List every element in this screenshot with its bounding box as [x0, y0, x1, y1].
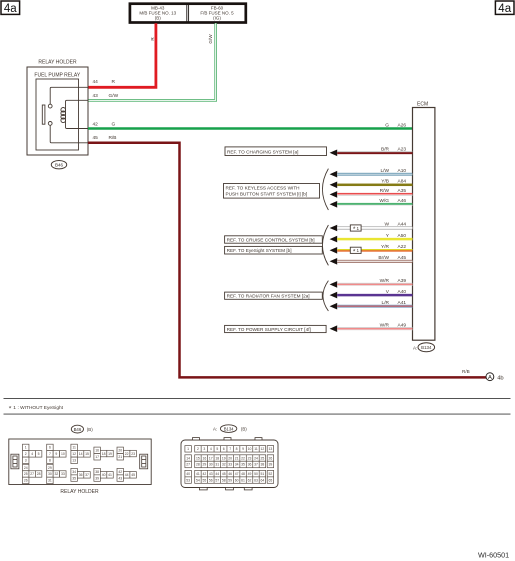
svg-text:27: 27	[30, 472, 34, 476]
svg-text:A23: A23	[398, 147, 407, 153]
label W/R A39	[380, 278, 407, 284]
svg-text:21: 21	[235, 456, 239, 460]
svg-text:6: 6	[49, 446, 51, 450]
svg-text:REF. TO EyeSight SYSTEM [b]: REF. TO EyeSight SYSTEM [b]	[227, 248, 292, 253]
svg-text:64: 64	[261, 478, 265, 482]
svg-text:21: 21	[118, 455, 122, 459]
svg-text:B46: B46	[74, 427, 82, 432]
B46 pins 11-15	[71, 444, 90, 463]
svg-text:56: 56	[209, 478, 213, 482]
ref box: keyless access with push button start system	[224, 184, 320, 199]
svg-text:5: 5	[38, 452, 40, 456]
svg-text:(B): (B)	[87, 427, 93, 432]
svg-text:45: 45	[222, 472, 226, 476]
label RELAY HOLDER (pinout)	[60, 489, 99, 495]
B46 pins 29-33	[47, 464, 66, 483]
svg-text:1: 1	[13, 405, 16, 411]
svg-text:38: 38	[95, 470, 99, 474]
connector B134 label	[213, 425, 247, 433]
svg-text:39: 39	[95, 476, 99, 480]
svg-text:4b: 4b	[497, 375, 503, 381]
svg-text:*: *	[9, 405, 12, 412]
wire R from fuse MB-43 to relay pin 44	[88, 23, 156, 87]
connector B134 ECM pinout	[181, 438, 278, 490]
svg-text:43: 43	[118, 476, 122, 480]
svg-text:Br/W: Br/W	[378, 255, 389, 261]
svg-text:45: 45	[131, 473, 135, 477]
label G/W (vertical wire color)	[208, 34, 213, 44]
svg-text:45: 45	[93, 135, 99, 141]
svg-text:A:: A:	[413, 345, 417, 350]
svg-text:24: 24	[254, 456, 258, 460]
fuse MB-43 M/B FUSE NO. 13 (B)	[130, 4, 246, 23]
connector B46 reference oval	[51, 161, 66, 169]
svg-text:53: 53	[186, 478, 190, 482]
svg-text:59: 59	[228, 478, 232, 482]
label V A40	[386, 289, 407, 295]
wire relay coil to pin 42	[66, 122, 89, 129]
svg-text:A40: A40	[398, 289, 407, 295]
svg-text:10: 10	[248, 447, 252, 451]
svg-text:1: 1	[25, 446, 27, 450]
wire relay contact to pin 45	[50, 125, 88, 142]
svg-text:43: 43	[209, 472, 213, 476]
label L/W A10	[380, 168, 406, 174]
svg-text:A45: A45	[398, 255, 407, 261]
svg-text:W/R: W/R	[380, 278, 390, 284]
svg-text:46: 46	[228, 472, 232, 476]
svg-text:A41: A41	[398, 300, 407, 306]
svg-text:41: 41	[108, 473, 112, 477]
svg-text:32: 32	[54, 472, 58, 476]
wire Y/B to ECM pin A84	[330, 182, 413, 189]
svg-text:2: 2	[25, 452, 27, 456]
svg-text:27: 27	[186, 463, 190, 467]
svg-text:39: 39	[269, 463, 273, 467]
svg-text:ECM: ECM	[417, 101, 428, 107]
B46 pins 16-19	[94, 447, 113, 460]
svg-text:A50: A50	[398, 233, 407, 239]
svg-text:13: 13	[72, 459, 76, 463]
svg-text:26: 26	[24, 479, 28, 483]
svg-text:54: 54	[196, 478, 200, 482]
svg-text:R: R	[150, 37, 155, 41]
svg-text:12: 12	[72, 452, 76, 456]
svg-text:35: 35	[72, 476, 76, 480]
svg-text:26: 26	[269, 456, 273, 460]
svg-text:61: 61	[241, 478, 245, 482]
svg-text:25: 25	[24, 472, 28, 476]
svg-text:4a: 4a	[4, 3, 17, 15]
group arc cruise/eyesight	[322, 225, 328, 265]
svg-text:A46: A46	[398, 198, 407, 204]
wire Y to ECM pin A50	[330, 236, 413, 243]
B134 left pins 1,14,27,40,53	[185, 446, 191, 484]
footnote *1 WITHOUT EyeSight	[9, 405, 64, 413]
wire R/W to ECM pin A35	[330, 191, 413, 198]
connector B46 label	[71, 425, 93, 433]
svg-text:G/W: G/W	[208, 34, 213, 44]
svg-text:38: 38	[261, 463, 265, 467]
svg-text:28: 28	[37, 472, 41, 476]
footnote box *1	[350, 247, 361, 255]
svg-text:1: 1	[357, 248, 360, 253]
svg-text:G/W: G/W	[109, 93, 119, 99]
svg-text:37: 37	[85, 473, 89, 477]
label B/R A23	[381, 147, 406, 153]
svg-text:A26: A26	[398, 122, 407, 128]
svg-text:RELAY HOLDER: RELAY HOLDER	[60, 489, 99, 495]
svg-text:20: 20	[228, 456, 232, 460]
group arc radiator fan	[323, 281, 328, 311]
svg-text:8: 8	[49, 459, 51, 463]
svg-text:62: 62	[248, 478, 252, 482]
svg-text:A49: A49	[398, 322, 407, 328]
svg-text:R/B: R/B	[109, 135, 117, 141]
svg-text:8: 8	[236, 447, 238, 451]
document number WI-60501	[478, 551, 509, 560]
svg-text:17: 17	[95, 455, 99, 459]
svg-text:REF. TO RADIATOR FAN SYSTEM [2: REF. TO RADIATOR FAN SYSTEM [2a]	[227, 294, 310, 299]
svg-text:32: 32	[222, 463, 226, 467]
wire Y/R to ECM pin A22	[330, 247, 413, 254]
svg-text:4: 4	[210, 447, 212, 451]
ref box: EyeSight system	[225, 246, 323, 254]
B46 pins 38-41	[94, 468, 113, 481]
svg-text:40: 40	[102, 473, 106, 477]
svg-text:24: 24	[24, 466, 28, 470]
svg-text:RELAY HOLDER: RELAY HOLDER	[38, 60, 77, 66]
svg-text:22: 22	[241, 456, 245, 460]
separator rules	[4, 398, 511, 414]
svg-text:50: 50	[254, 472, 258, 476]
ECM U1	[413, 101, 435, 340]
svg-text:23: 23	[131, 452, 135, 456]
label Y A50	[386, 233, 407, 239]
svg-text:22: 22	[125, 452, 129, 456]
label R/W A35	[380, 188, 407, 194]
svg-text:29: 29	[202, 463, 206, 467]
label W/R A49	[380, 322, 407, 328]
svg-text:A44: A44	[398, 222, 407, 228]
label R/B (bottom run)	[462, 369, 470, 374]
svg-text:20: 20	[118, 449, 122, 453]
svg-text:B46: B46	[55, 163, 64, 168]
B46 pins 24-28	[23, 464, 42, 483]
label G A26	[385, 122, 406, 128]
svg-text:B/R: B/R	[381, 147, 390, 153]
svg-text:51: 51	[261, 472, 265, 476]
svg-text:44: 44	[215, 472, 219, 476]
svg-text:W: W	[384, 222, 389, 228]
svg-text:30: 30	[48, 472, 52, 476]
svg-text:42: 42	[118, 470, 122, 474]
svg-text:3: 3	[25, 459, 27, 463]
label Br/W A45	[378, 255, 406, 261]
svg-text:(IG): (IG)	[213, 16, 221, 21]
B46 pins 20-23	[117, 447, 136, 460]
B46 pins 42-45	[117, 468, 136, 481]
svg-text:42: 42	[202, 472, 206, 476]
svg-text:34: 34	[72, 470, 76, 474]
svg-text:B134: B134	[421, 345, 432, 350]
svg-text:1: 1	[357, 226, 360, 231]
label Y/R A22	[381, 244, 406, 250]
svg-text:FUEL PUMP RELAY: FUEL PUMP RELAY	[34, 73, 80, 79]
B46 pins 1-5	[23, 444, 42, 463]
svg-text:18: 18	[102, 452, 106, 456]
svg-text:48: 48	[241, 472, 245, 476]
pin 42 label G	[93, 122, 116, 128]
svg-text:16: 16	[95, 449, 99, 453]
wire W/R to ECM pin A39	[330, 281, 413, 288]
node A circle to 4b	[486, 373, 504, 381]
svg-text:9: 9	[242, 447, 244, 451]
svg-text:36: 36	[248, 463, 252, 467]
wire G from relay pin 42 to ECM A26	[88, 127, 413, 130]
svg-text:R/B: R/B	[462, 369, 470, 374]
svg-text:17: 17	[209, 456, 213, 460]
footnote box *1	[350, 225, 361, 233]
svg-text:10: 10	[61, 452, 65, 456]
svg-text:52: 52	[269, 472, 273, 476]
label Y/B A84	[381, 179, 406, 185]
svg-text:9: 9	[55, 452, 57, 456]
svg-text:11: 11	[254, 447, 258, 451]
ref box: radiator fan system	[225, 292, 323, 299]
svg-text:58: 58	[222, 478, 226, 482]
svg-text:*: *	[353, 226, 356, 233]
label L/R A41	[382, 300, 407, 306]
svg-text:L/W: L/W	[380, 168, 389, 174]
wire G/W from fuse FB-60 to relay pin 43	[88, 23, 216, 100]
svg-text:12: 12	[261, 447, 265, 451]
svg-text:REF. TO KEYLESS ACCESS WITH: REF. TO KEYLESS ACCESS WITH	[226, 186, 300, 191]
B134 middle pin grid	[195, 446, 266, 484]
svg-text:15: 15	[196, 456, 200, 460]
wire L/R to ECM pin A41	[330, 303, 413, 310]
svg-text:60: 60	[235, 478, 239, 482]
svg-text:43: 43	[93, 93, 99, 99]
svg-text:28: 28	[196, 463, 200, 467]
relay coil	[61, 108, 66, 123]
wire B/R to ECM pin A23	[330, 150, 413, 157]
relay holder box	[27, 60, 88, 156]
relay contact (switch)	[42, 104, 52, 125]
svg-text:65: 65	[269, 478, 273, 482]
svg-text:41: 41	[196, 472, 200, 476]
svg-text:Y/B: Y/B	[381, 179, 389, 185]
svg-text:34: 34	[235, 463, 239, 467]
svg-text:A:: A:	[213, 427, 217, 432]
ref box: power supply circuit	[225, 325, 327, 332]
wire R/B from relay pin 45 to joint connector A (4b)	[88, 143, 486, 378]
svg-text:47: 47	[235, 472, 239, 476]
svg-text:29: 29	[48, 466, 52, 470]
svg-text:REF. TO CHARGING SYSTEM [a]: REF. TO CHARGING SYSTEM [a]	[227, 149, 298, 154]
wire L/W to ECM pin A10	[330, 171, 413, 178]
svg-text:3: 3	[203, 447, 205, 451]
svg-text:WI-60501: WI-60501	[478, 551, 509, 560]
svg-text:1: 1	[187, 447, 189, 451]
svg-text:19: 19	[222, 456, 226, 460]
svg-text:7: 7	[229, 447, 231, 451]
svg-text:R: R	[112, 79, 116, 85]
svg-text:6: 6	[223, 447, 225, 451]
svg-text:25: 25	[261, 456, 265, 460]
svg-text:13: 13	[269, 447, 273, 451]
svg-text:55: 55	[202, 478, 206, 482]
svg-text:G: G	[385, 122, 389, 128]
wire relay coil to pin 43	[66, 100, 89, 108]
node 4a (top-right sheet reference)	[495, 1, 514, 15]
wire W/R to ECM pin A49	[330, 325, 413, 332]
svg-text:G: G	[112, 122, 116, 128]
svg-text:57: 57	[215, 478, 219, 482]
svg-text:(B): (B)	[241, 427, 247, 432]
label W/G A46	[379, 198, 406, 204]
ref box: cruise control system	[225, 236, 323, 243]
svg-text:B134: B134	[224, 426, 234, 431]
svg-text:31: 31	[215, 463, 219, 467]
pin 44 label R	[93, 79, 116, 85]
svg-text:5: 5	[216, 447, 218, 451]
svg-text:A10: A10	[398, 168, 407, 174]
B46 left mount slot	[11, 454, 19, 469]
svg-text:L/R: L/R	[382, 300, 390, 306]
pin 43 label G/W	[93, 93, 119, 99]
connector B134 reference oval	[413, 343, 435, 352]
svg-text:4: 4	[31, 452, 33, 456]
wire V to ECM pin A40	[330, 292, 413, 299]
svg-text:*: *	[353, 249, 356, 256]
svg-text:40: 40	[186, 472, 190, 476]
label W A44	[384, 222, 406, 228]
svg-text:15: 15	[85, 452, 89, 456]
fuse FB-60 F/B FUSE NO. 5 (IG)	[187, 4, 234, 22]
svg-text:14: 14	[186, 456, 190, 460]
svg-text:35: 35	[241, 463, 245, 467]
svg-text:14: 14	[79, 452, 83, 456]
svg-text:31: 31	[48, 479, 52, 483]
B46 pins 34-37	[71, 468, 90, 481]
svg-text:REF. TO CRUISE CONTROL SYSTEM: REF. TO CRUISE CONTROL SYSTEM [b]	[227, 238, 315, 243]
fuel pump relay K1	[34, 73, 80, 150]
svg-text:W/G: W/G	[379, 198, 389, 204]
wire W to ECM pin A44	[330, 225, 413, 232]
svg-text:W/R: W/R	[380, 322, 390, 328]
B134 right pins 13,26,39,52,65	[267, 446, 273, 484]
svg-text:: WITHOUT EyeSight: : WITHOUT EyeSight	[18, 405, 64, 411]
svg-text:2: 2	[197, 447, 199, 451]
svg-text:42: 42	[93, 122, 99, 128]
svg-text:A22: A22	[398, 244, 407, 250]
wire relay contact to pin 44	[50, 87, 88, 104]
svg-text:A: A	[488, 375, 492, 381]
svg-text:REF. TO POWER SUPPLY CIRCUIT [: REF. TO POWER SUPPLY CIRCUIT [4f]	[227, 327, 311, 332]
svg-text:7: 7	[49, 452, 51, 456]
svg-text:37: 37	[254, 463, 258, 467]
svg-text:44: 44	[93, 79, 99, 85]
svg-text:4a: 4a	[498, 3, 511, 15]
svg-text:PUSH BUTTON START SYSTEM [i] [: PUSH BUTTON START SYSTEM [i] [b]	[226, 192, 308, 197]
label R (vertical wire color)	[150, 37, 155, 41]
svg-text:19: 19	[108, 452, 112, 456]
connector B46 relay holder pinout	[9, 439, 151, 485]
node 4a (top-left sheet reference)	[1, 1, 20, 15]
group arc keyless	[322, 169, 328, 210]
svg-text:30: 30	[209, 463, 213, 467]
svg-text:18: 18	[215, 456, 219, 460]
wire Br/W to ECM pin A45	[330, 258, 413, 265]
svg-text:33: 33	[61, 472, 65, 476]
ref box: charging system	[225, 147, 327, 156]
svg-text:A39: A39	[398, 278, 407, 284]
svg-text:36: 36	[79, 473, 83, 477]
svg-text:16: 16	[202, 456, 206, 460]
pin 45 label R/B	[93, 135, 117, 141]
svg-text:Y/R: Y/R	[381, 244, 390, 250]
svg-text:11: 11	[72, 446, 76, 450]
svg-text:R/W: R/W	[380, 188, 390, 194]
svg-text:63: 63	[254, 478, 258, 482]
svg-text:(B): (B)	[155, 16, 162, 21]
svg-text:A35: A35	[398, 188, 407, 194]
svg-text:44: 44	[125, 473, 129, 477]
svg-text:A84: A84	[398, 179, 407, 185]
svg-text:23: 23	[248, 456, 252, 460]
svg-text:33: 33	[228, 463, 232, 467]
svg-text:49: 49	[248, 472, 252, 476]
B46 pins 6-10	[47, 444, 66, 463]
wire W/G to ECM pin A46	[330, 201, 413, 208]
B46 right mount slot	[140, 454, 148, 469]
